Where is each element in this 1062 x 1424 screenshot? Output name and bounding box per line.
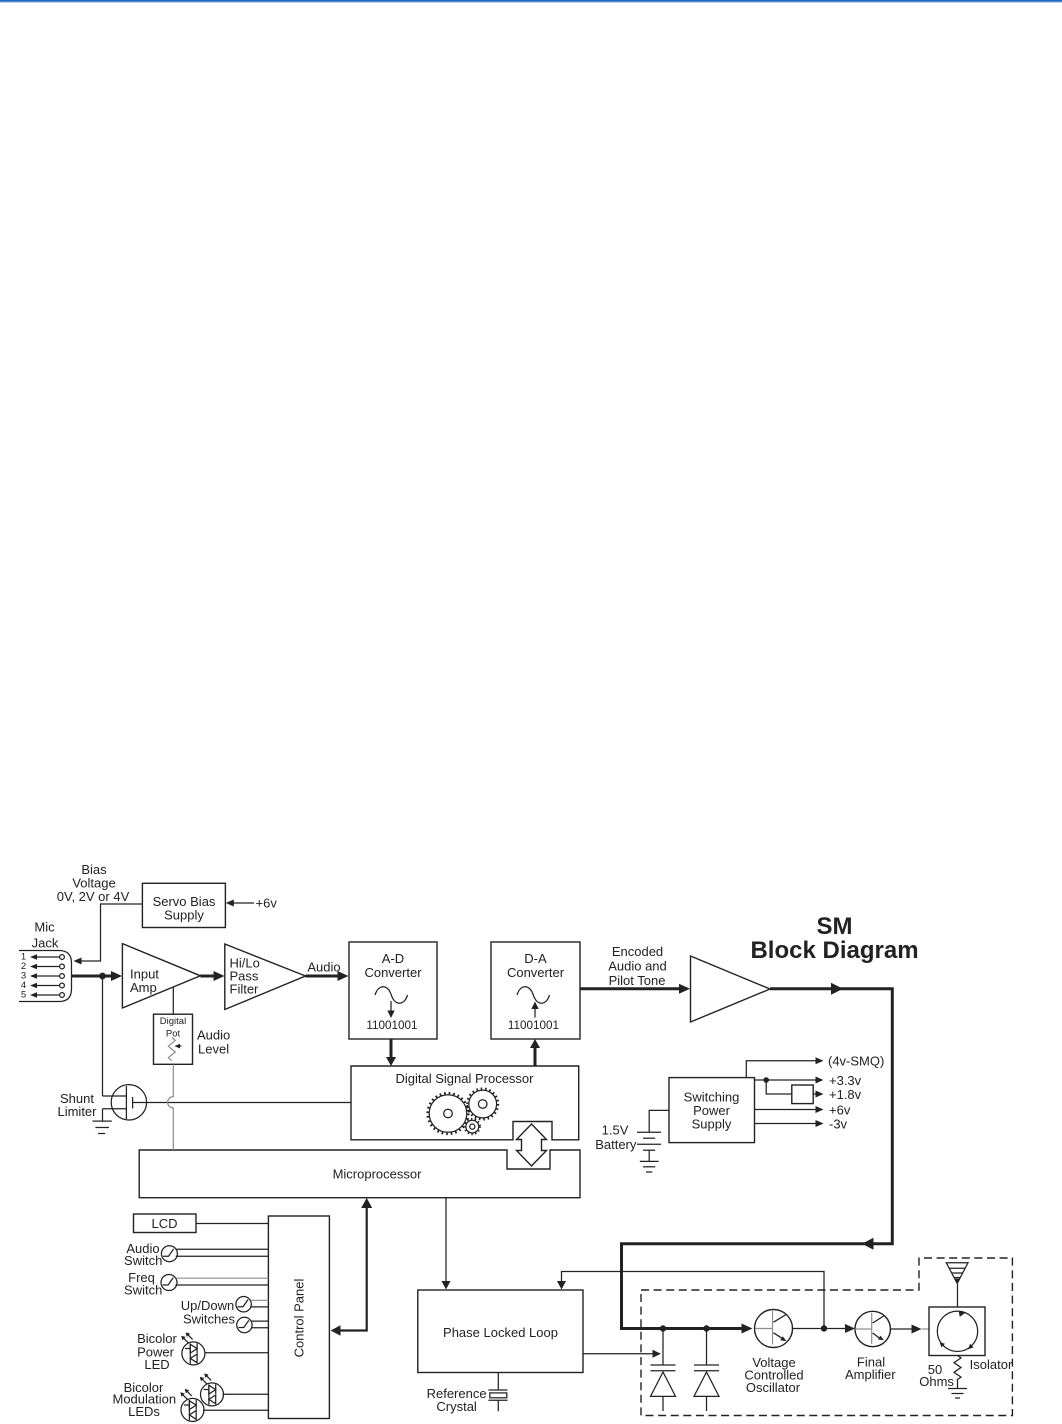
svg-text:Encoded: Encoded: [612, 944, 663, 959]
svg-text:+6v: +6v: [829, 1103, 851, 1118]
svg-text:Oscillator: Oscillator: [746, 1380, 801, 1395]
svg-text:LEDs: LEDs: [128, 1404, 160, 1419]
svg-text:5: 5: [21, 990, 26, 1001]
svg-text:Mic: Mic: [34, 920, 55, 935]
svg-text:+1.8v: +1.8v: [829, 1087, 862, 1102]
svg-text:-3v: -3v: [829, 1117, 848, 1132]
svg-text:Ohms: Ohms: [919, 1374, 954, 1389]
svg-text:Jack: Jack: [32, 936, 59, 951]
svg-text:Audio and: Audio and: [608, 959, 667, 974]
svg-text:D-A: D-A: [524, 951, 547, 966]
svg-text:Phase Locked Loop: Phase Locked Loop: [443, 1325, 558, 1340]
svg-text:Microprocessor: Microprocessor: [333, 1167, 423, 1182]
svg-text:0V, 2V or 4V: 0V, 2V or 4V: [57, 889, 130, 904]
svg-text:Supply: Supply: [164, 908, 204, 923]
svg-text:Converter: Converter: [364, 965, 422, 980]
svg-text:Switches: Switches: [183, 1312, 236, 1327]
svg-text:LCD: LCD: [151, 1216, 177, 1231]
svg-text:Switch: Switch: [124, 1283, 162, 1298]
svg-text:11001001: 11001001: [366, 1019, 417, 1032]
svg-text:Pilot Tone: Pilot Tone: [609, 973, 666, 988]
svg-text:Audio: Audio: [307, 960, 340, 975]
svg-text:(4v-SMQ): (4v-SMQ): [828, 1054, 884, 1069]
svg-text:+3.3v: +3.3v: [829, 1073, 862, 1088]
svg-text:Crystal: Crystal: [436, 1399, 477, 1414]
svg-text:Battery: Battery: [595, 1137, 637, 1152]
svg-text:11001001: 11001001: [508, 1019, 559, 1032]
svg-text:Filter: Filter: [230, 982, 260, 997]
svg-text:A-D: A-D: [382, 951, 404, 966]
svg-text:SM: SM: [817, 913, 853, 940]
svg-text:Digital: Digital: [160, 1016, 186, 1027]
svg-text:Amplifier: Amplifier: [845, 1367, 896, 1382]
svg-text:Level: Level: [198, 1042, 229, 1057]
svg-text:Amp: Amp: [130, 980, 157, 995]
svg-text:Block Diagram: Block Diagram: [750, 937, 918, 964]
svg-text:Control Panel: Control Panel: [292, 1279, 307, 1358]
svg-text:Pot: Pot: [166, 1029, 181, 1040]
svg-text:Converter: Converter: [507, 965, 565, 980]
svg-text:Digital Signal Processor: Digital Signal Processor: [395, 1071, 534, 1086]
svg-text:Limiter: Limiter: [57, 1104, 97, 1119]
svg-text:Switch: Switch: [124, 1253, 162, 1268]
svg-text:1.5V: 1.5V: [602, 1123, 629, 1138]
svg-text:Supply: Supply: [692, 1117, 732, 1132]
svg-text:LED: LED: [144, 1357, 169, 1372]
svg-text:Isolator: Isolator: [970, 1357, 1013, 1372]
svg-text:Audio: Audio: [197, 1028, 230, 1043]
svg-text:+6v: +6v: [256, 896, 278, 911]
